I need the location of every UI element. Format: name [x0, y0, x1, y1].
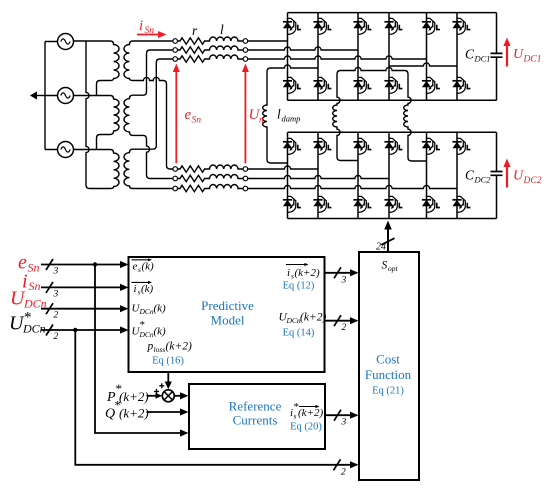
bus arrow Sopt to converter (24)	[381, 221, 394, 253]
svg-text:3: 3	[341, 275, 347, 285]
wire converter1 leg4 mid to leg6 mid (hops leg5)	[389, 63, 457, 66]
IGBT switch S45	[422, 196, 440, 212]
label is(k+2) vector output	[286, 263, 309, 266]
svg-text:s: s	[294, 412, 297, 421]
wire phase1 to T1 primary	[74, 40, 111, 42]
transformer T1 secondary winding	[124, 41, 173, 84]
svg-text:p: p	[147, 341, 154, 353]
svg-text:r: r	[192, 23, 198, 38]
svg-text:(k+2): (k+2)	[119, 406, 149, 421]
IGBT switch S32	[313, 138, 331, 154]
svg-text:DC1: DC1	[474, 54, 491, 64]
arrow multiplier to reference currents	[174, 392, 188, 399]
svg-text:DC1: DC1	[523, 55, 542, 65]
svg-text:i: i	[287, 267, 290, 279]
converter 1 legs	[288, 13, 458, 101]
wire eSn branch to reference currents	[95, 265, 189, 437]
svg-text:Predictive: Predictive	[201, 298, 254, 313]
svg-text:(k+2): (k+2)	[295, 267, 320, 279]
label is*(k+2) vector	[299, 405, 320, 408]
node terminals (open circles) on lines	[173, 39, 248, 191]
AC source G2	[58, 88, 74, 104]
svg-text:e: e	[185, 107, 192, 123]
ground	[37, 95, 45, 97]
IGBT switch S46	[452, 196, 470, 212]
svg-text:(k+2): (k+2)	[300, 312, 326, 324]
svg-text:DC2: DC2	[523, 176, 542, 186]
arrow UDC2 (red)	[503, 159, 510, 188]
wire phase2 to T2 primary	[74, 95, 111, 97]
svg-text:U: U	[513, 169, 524, 184]
svg-text:(k+2): (k+2)	[119, 389, 149, 404]
converter 1 top rail	[288, 12, 497, 14]
svg-text:i: i	[139, 18, 143, 34]
arrow P* into multiplier	[147, 393, 163, 399]
svg-text:Eq (12): Eq (12)	[283, 281, 315, 292]
svg-text:(k+2): (k+2)	[298, 407, 323, 419]
capacitor CDC2 branch wire	[496, 132, 498, 218]
IGBT switch S34	[384, 138, 402, 154]
bus arrow UDCn* into predictive model	[41, 325, 129, 336]
svg-text:e: e	[133, 261, 138, 273]
IGBT switch S36	[452, 138, 470, 154]
predictive model box	[129, 257, 325, 372]
damp inductor A winding	[263, 72, 288, 164]
IGBT switch S33	[353, 138, 371, 154]
svg-text:2: 2	[54, 311, 59, 321]
svg-text:l: l	[220, 22, 224, 37]
svg-text:(k): (k)	[154, 326, 167, 338]
converter 2 legs	[288, 132, 458, 218]
wire phase3 to T3 primary	[74, 149, 111, 151]
svg-text:Sn: Sn	[192, 116, 202, 126]
capacitor CDC1 branch wire	[496, 13, 498, 101]
svg-text:DCn: DCn	[139, 307, 154, 316]
svg-text:Eq (14): Eq (14)	[283, 328, 315, 339]
bus arrow UDCn(k+2) to cost function	[325, 315, 359, 326]
transformer T3 primary winding	[90, 150, 120, 189]
svg-text:DCn: DCn	[286, 316, 301, 325]
IGBT switch S14	[384, 18, 402, 34]
wire line2 to converter1 leg3 (hops legs1,2)	[248, 47, 358, 50]
arrow Un (red)	[242, 64, 249, 164]
svg-text:C: C	[465, 47, 475, 62]
IGBT switch S23	[353, 77, 371, 93]
wire line6 to converter2 leg6 (hops legs1-5)	[248, 185, 457, 188]
IGBT switch S22	[313, 77, 331, 93]
damp inductor B winding (hops both DC rails)	[333, 74, 358, 161]
svg-text:DCn: DCn	[139, 330, 154, 339]
plus signs at multiplier	[154, 383, 164, 394]
capacitor CDC1	[491, 53, 503, 57]
wire phase1 drop to T3 primary bottom (hops phase2, phase3)	[86, 41, 90, 189]
svg-text:3: 3	[341, 418, 347, 428]
junction node on eSn bus	[93, 262, 97, 266]
transformer T1 primary winding	[100, 41, 119, 81]
svg-text:Eq (21): Eq (21)	[372, 386, 404, 397]
bus arrow eSn into predictive model	[41, 259, 129, 270]
svg-text:(k+2): (k+2)	[166, 341, 192, 353]
IGBT switch S31	[283, 138, 301, 154]
junction node on UDCn* bus	[73, 328, 77, 332]
IGBT switch S41	[283, 196, 301, 212]
svg-text:Cost: Cost	[376, 352, 400, 367]
svg-text:Model: Model	[211, 313, 245, 328]
AC source G3	[58, 142, 74, 158]
svg-text:(k): (k)	[142, 261, 155, 273]
reference currents box	[189, 384, 325, 449]
svg-text:opt: opt	[388, 264, 399, 273]
wire T1 primary bottom to phase2 node	[97, 81, 101, 96]
line6 series resistor and inductor	[178, 184, 244, 191]
converter 2 top rail	[288, 131, 497, 133]
IGBT switch S26	[452, 77, 470, 93]
transformer T3 secondary winding	[124, 149, 173, 188]
arrow Q* into reference currents	[147, 408, 189, 415]
svg-text:Sn: Sn	[145, 26, 155, 36]
arrow iSn (red)	[137, 31, 167, 38]
svg-text:S: S	[382, 260, 388, 272]
svg-text:damp: damp	[282, 114, 301, 124]
transformer T2 secondary winding	[124, 95, 147, 139]
wire line2 drop to T2 secondary top	[133, 50, 173, 95]
converter 2 bottom rail	[288, 218, 497, 220]
wire line4 to converter2 leg2 (hops leg1)	[248, 166, 318, 169]
wire T1 secondary bottom to line4	[167, 84, 173, 169]
wire converter1 leg2 mid to damp inductor A (hops leg1)	[267, 65, 318, 72]
bus arrow iSn into predictive model	[41, 282, 129, 293]
svg-text:3: 3	[53, 267, 59, 277]
line3 series resistor and inductor	[178, 55, 244, 62]
svg-text:DC2: DC2	[474, 175, 492, 185]
svg-text:i: i	[134, 283, 137, 295]
multiplier node	[162, 390, 174, 402]
svg-text:*: *	[24, 310, 32, 326]
IGBT switch S15	[422, 18, 440, 34]
svg-text:l: l	[277, 107, 281, 122]
capacitor CDC2	[491, 172, 503, 176]
bus arrow UDCn into predictive model	[41, 303, 129, 314]
IGBT switch S42	[313, 196, 331, 212]
wire T2 primary bottom to phase3 node	[97, 135, 101, 150]
arrow UDC1 (red)	[503, 38, 510, 67]
label is(k) vector	[132, 281, 153, 284]
svg-text:*: *	[140, 319, 146, 331]
wire line1 to converter1 leg1	[248, 40, 288, 42]
svg-text:loss: loss	[154, 345, 166, 354]
bus arrow is(k+2) to cost function	[325, 267, 359, 278]
svg-text:U: U	[513, 47, 524, 62]
line1 series resistor r and inductor l	[178, 37, 244, 44]
cost function box	[359, 252, 419, 480]
svg-text:Reference: Reference	[229, 399, 282, 414]
IGBT switch S16	[452, 18, 470, 34]
svg-text:2: 2	[341, 467, 346, 477]
damp inductor C winding (hops both DC rails)	[404, 74, 427, 161]
svg-text:C: C	[465, 168, 475, 183]
converter 1 bottom rail	[288, 99, 497, 101]
IGBT switch S12	[313, 18, 331, 34]
AC source G1	[58, 34, 74, 50]
IGBT switch S13	[353, 18, 371, 34]
wire line3 to converter1 leg5 (hops legs1-4)	[248, 56, 427, 59]
arrow eSn (red)	[173, 64, 180, 164]
IGBT switch S35	[422, 138, 440, 154]
svg-text:(k): (k)	[154, 303, 167, 315]
IGBT switch S24	[384, 77, 402, 93]
svg-text:Eq (16): Eq (16)	[152, 356, 184, 367]
IGBT switch S43	[353, 196, 371, 212]
wire predictive model to multiplier	[165, 372, 172, 389]
wire line3 drop to T3 secondary top	[153, 59, 173, 149]
wire source left bus	[45, 42, 58, 150]
wire T2 secondary bottom to line5 (hops T3 secondary top wire)	[147, 139, 173, 179]
svg-text:3: 3	[53, 289, 59, 299]
transformer T2 primary winding	[100, 96, 119, 135]
svg-text:(k): (k)	[141, 283, 154, 295]
wire UDCn* branch to cost function	[75, 330, 358, 470]
svg-text:Function: Function	[365, 367, 412, 382]
IGBT switch S44	[384, 196, 402, 212]
svg-text:2: 2	[342, 323, 347, 333]
svg-text:n: n	[259, 116, 264, 126]
line4 series resistor and inductor	[178, 165, 244, 172]
svg-text:Sn: Sn	[29, 279, 41, 293]
svg-text:2: 2	[54, 332, 59, 342]
bus arrow reference currents to cost function	[325, 410, 359, 421]
svg-text:Eq (20): Eq (20)	[290, 422, 322, 433]
line5 series resistor and inductor	[178, 174, 244, 181]
IGBT switch S25	[422, 77, 440, 93]
svg-text:Sn: Sn	[28, 261, 40, 275]
label es(k) vector	[132, 258, 153, 261]
IGBT switch S11	[283, 18, 301, 34]
wire line5 to converter2 leg4 (hops legs1-3)	[248, 175, 389, 178]
svg-text:Currents: Currents	[233, 413, 278, 428]
line2 series resistor and inductor	[178, 46, 244, 53]
wire damp inductor B to damp inductor C (hops legs3,4)	[337, 67, 408, 74]
svg-text:24: 24	[376, 242, 386, 253]
IGBT switch S21	[283, 77, 301, 93]
